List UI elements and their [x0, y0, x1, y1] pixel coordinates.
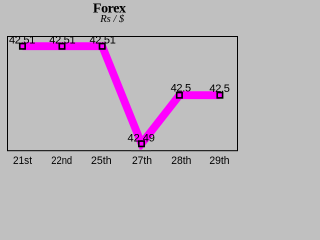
- svg-text:28th: 28th: [171, 155, 191, 167]
- svg-text:42.5: 42.5: [209, 83, 229, 95]
- chart background: [0, 0, 242, 167]
- marker 21st: [20, 44, 25, 49]
- plot area border: [8, 37, 238, 151]
- svg-text:27th: 27th: [132, 155, 152, 167]
- svg-text:29th: 29th: [209, 155, 229, 167]
- marker 25th: [100, 44, 105, 49]
- svg-text:Rs / $: Rs / $: [99, 14, 125, 25]
- svg-text:21st: 21st: [13, 155, 32, 167]
- svg-text:42.51: 42.51: [89, 35, 115, 47]
- gray patch trimming V tip to match target: [131, 150, 151, 152]
- svg-text:25th: 25th: [91, 155, 112, 167]
- marker 28th: [177, 93, 182, 98]
- svg-text:42.5: 42.5: [171, 82, 191, 94]
- marker 27th: [139, 141, 144, 146]
- bottom border segment redrawn over patch: [131, 150, 151, 152]
- svg-text:42.51: 42.51: [49, 35, 75, 47]
- marker 29th: [217, 93, 222, 98]
- series line Forex (Rs/$): [22, 46, 219, 144]
- marker 22nd: [59, 44, 64, 49]
- svg-text:22nd: 22nd: [51, 155, 72, 167]
- svg-text:42.51: 42.51: [9, 35, 35, 47]
- svg-text:42.49: 42.49: [128, 132, 155, 144]
